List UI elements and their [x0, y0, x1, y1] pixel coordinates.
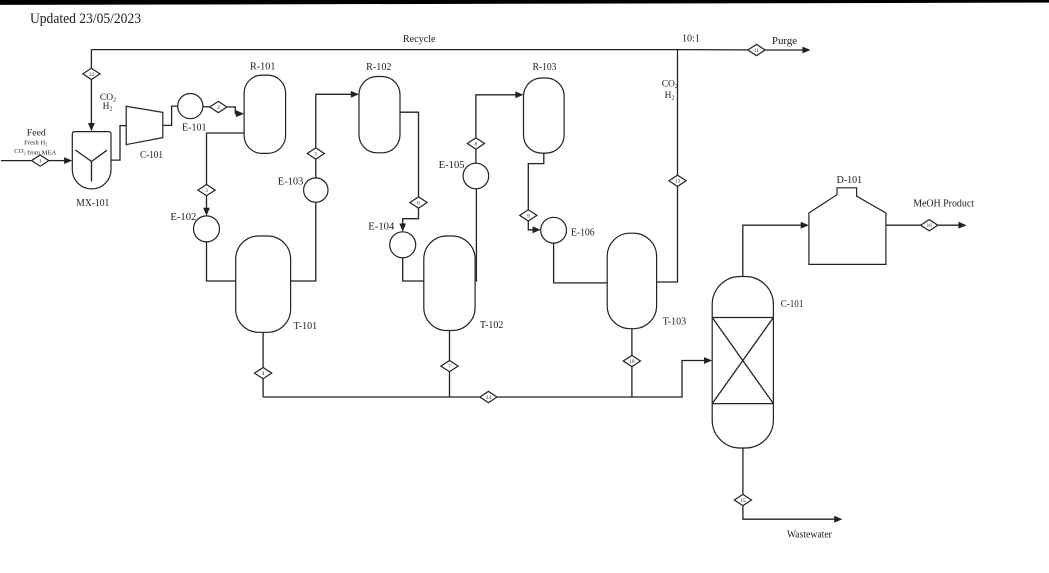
stream diamond 4: [255, 368, 272, 379]
reactor R-101: [244, 75, 286, 153]
svg-text:4: 4: [262, 371, 265, 377]
column C-101 shell: [712, 277, 773, 449]
stream diamond 10: [623, 355, 640, 366]
stream diamond 16: [921, 220, 938, 231]
svg-text:16: 16: [927, 223, 933, 229]
wire T-103 overhead riser: [657, 186, 678, 282]
arrow into column C-101: [704, 357, 712, 364]
svg-text:8: 8: [475, 141, 478, 147]
wire column bottoms: [742, 448, 744, 494]
stream diamond 11: [748, 44, 765, 55]
svg-text:2: 2: [217, 105, 220, 111]
drum D-101: [809, 188, 886, 265]
svg-text:5: 5: [314, 151, 317, 157]
wire T-103 bottoms: [631, 329, 633, 356]
wire C-101 to E-101: [163, 106, 178, 125]
wire recycle drop upper: [90, 50, 92, 69]
wire R-103 to diamond 9: [528, 153, 544, 210]
svg-text:D-101: D-101: [837, 175, 863, 186]
heat exchanger E-104: [390, 232, 416, 258]
mixer MX-101 impeller: [75, 150, 106, 182]
stream diamond 9: [520, 210, 537, 221]
svg-text:MeOH Product: MeOH Product: [913, 199, 974, 210]
wire recycle header: [91, 49, 677, 51]
wire R-101 to drop line: [207, 133, 245, 185]
mixer MX-101 vessel: [72, 132, 111, 189]
wire T-102 bottoms: [449, 331, 451, 361]
svg-text:Wastewater: Wastewater: [787, 529, 833, 540]
svg-text:Fresh H2: Fresh H2: [24, 140, 47, 147]
stream diamond 3: [198, 185, 215, 196]
stream diamond 5: [307, 148, 324, 159]
compressor C-101: [126, 106, 163, 144]
svg-text:E-104: E-104: [368, 221, 394, 232]
svg-text:E-106: E-106: [571, 227, 595, 238]
wire column overhead to D-101: [743, 225, 802, 276]
svg-text:C-101: C-101: [140, 150, 163, 161]
wire diamond 11 to purge arrow: [765, 49, 803, 51]
top black bar: [0, 0, 1049, 5]
stream diamond 12: [83, 68, 100, 79]
separator T-101: [236, 236, 291, 332]
wire T-103 bottoms lower: [631, 367, 633, 397]
wire MX-101 to C-101: [111, 126, 126, 161]
column C-101 bottom tray line: [712, 403, 773, 405]
wire riser upper: [677, 50, 679, 176]
wire bottoms header right: [497, 361, 705, 398]
wire T-101 overhead to E-103: [291, 202, 316, 281]
column C-101 packing cross line 2: [712, 318, 773, 404]
reactor R-103: [524, 78, 565, 153]
stream diamond 8: [467, 138, 484, 149]
column C-101 packing cross line 1: [712, 318, 773, 404]
wire diamond 2 to R-101: [227, 107, 237, 114]
svg-text:Feed: Feed: [27, 127, 46, 138]
svg-text:E-103: E-103: [278, 176, 304, 187]
svg-text:E-105: E-105: [439, 160, 465, 171]
wire E-105 to diamond 8: [475, 149, 477, 163]
arrow purge: [802, 47, 810, 54]
wire E-103 to diamond 5: [315, 159, 317, 178]
wire T-102 overhead to E-105: [475, 189, 476, 281]
svg-text:Updated 23/05/2023: Updated 23/05/2023: [30, 11, 141, 27]
wire recycle drop lower: [90, 80, 92, 124]
svg-text:T-101: T-101: [294, 321, 318, 332]
wire E-101 to diamond 2: [203, 106, 210, 108]
svg-text:7: 7: [448, 364, 451, 370]
wire diamond 6 to E-104: [403, 208, 419, 224]
wire E-104 to T-102: [403, 258, 424, 281]
wire E-106 to T-103: [554, 243, 608, 283]
stream diamond 7: [441, 361, 458, 372]
stream diamond 1: [32, 155, 49, 166]
svg-text:12: 12: [89, 72, 95, 78]
arrow into R-101 left: [236, 110, 244, 117]
svg-text:CO2 from MEA: CO2 from MEA: [14, 148, 56, 156]
wire diamond 5 to R-102: [316, 94, 352, 148]
separator T-103: [607, 233, 656, 329]
stream diamond 13: [669, 175, 686, 186]
svg-text:R-103: R-103: [533, 62, 557, 73]
wire diamond1 to MX-101: [49, 160, 65, 162]
svg-text:10: 10: [629, 359, 635, 365]
arrow into E-102 top: [203, 208, 210, 216]
heat exchanger E-105: [463, 163, 489, 189]
wire bottoms header left: [263, 396, 480, 398]
svg-text:10:1: 10:1: [682, 34, 700, 45]
svg-text:T-102: T-102: [480, 320, 504, 331]
svg-text:9: 9: [527, 213, 530, 219]
svg-text:11: 11: [754, 48, 759, 54]
arrow into MX-101 top: [88, 123, 95, 131]
svg-text:Purge: Purge: [772, 36, 798, 47]
stream diamond 6: [410, 197, 427, 208]
wire E-102 to T-101: [207, 242, 236, 281]
heat exchanger E-106: [541, 217, 567, 243]
svg-text:E-101: E-101: [182, 123, 207, 134]
wire diamond 8 to R-103: [476, 95, 516, 138]
svg-text:T-103: T-103: [663, 316, 687, 327]
heat exchanger E-103: [304, 178, 328, 202]
svg-text:1: 1: [39, 159, 42, 165]
svg-text:3: 3: [205, 188, 208, 194]
arrow MeOH product: [958, 222, 966, 229]
arrow into E-104 top: [399, 224, 406, 232]
wire diamond 9 to E-106: [528, 221, 533, 230]
svg-text:6: 6: [417, 200, 420, 206]
heat exchanger E-101: [178, 94, 203, 119]
wire T-101 bottoms lower: [262, 379, 264, 397]
wire R-102 to diamond 6: [400, 112, 419, 197]
wire D-101 to diamond 16: [886, 224, 921, 226]
svg-text:R-102: R-102: [366, 62, 391, 73]
wire diamond 16 to product arrow: [938, 224, 959, 226]
arrow into R-103 left: [515, 91, 523, 98]
column C-101 top tray line: [712, 317, 773, 319]
svg-text:13: 13: [675, 179, 681, 185]
svg-text:Recycle: Recycle: [403, 34, 436, 45]
reactor R-102: [359, 77, 400, 153]
stream diamond 14: [480, 391, 497, 402]
wire diamond 3 to E-102: [206, 196, 208, 209]
svg-text:MX-101: MX-101: [76, 198, 109, 209]
wire purge line: [678, 49, 748, 51]
wire wastewater line: [743, 506, 835, 520]
svg-text:E-102: E-102: [170, 212, 196, 223]
svg-text:C-101: C-101: [781, 299, 804, 310]
arrow into MX-101 left: [64, 157, 72, 164]
arrow into R-102 left: [351, 91, 359, 98]
arrow into D-101 left: [801, 222, 809, 229]
svg-text:15: 15: [740, 498, 746, 504]
arrow into E-106 left: [533, 226, 541, 233]
arrow wastewater: [834, 516, 842, 523]
svg-text:R-101: R-101: [250, 61, 275, 72]
stream diamond 2: [210, 101, 227, 112]
wire T-101 bottoms: [262, 332, 264, 367]
wire T-102 bottoms lower: [449, 372, 451, 397]
svg-text:14: 14: [486, 395, 492, 401]
wire feed inlet: [1, 160, 32, 162]
separator T-102: [424, 236, 475, 331]
heat exchanger E-102: [194, 216, 220, 242]
stream diamond 15: [734, 494, 751, 505]
